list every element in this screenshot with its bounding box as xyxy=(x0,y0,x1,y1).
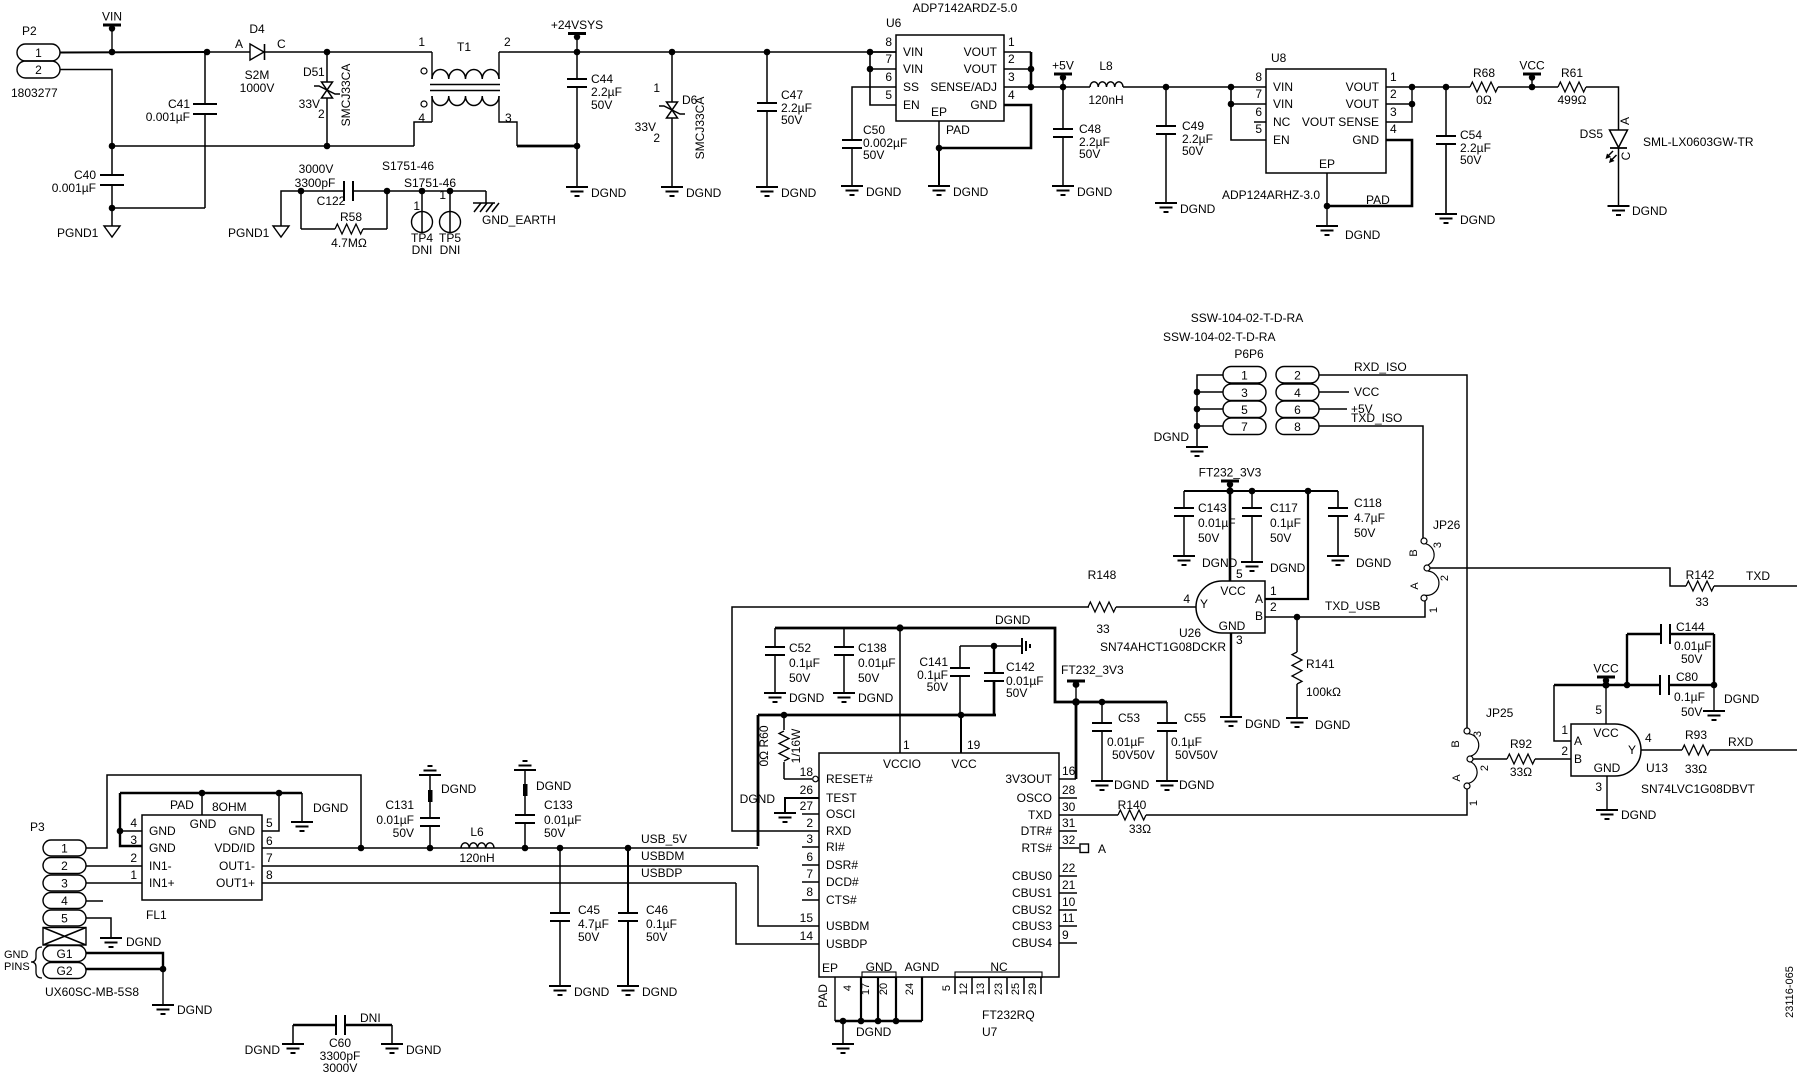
svg-text:G1: G1 xyxy=(56,947,72,961)
svg-text:+24VSYS: +24VSYS xyxy=(551,18,603,32)
svg-text:50V: 50V xyxy=(1681,652,1702,666)
ground DGND xyxy=(1596,808,1657,822)
svg-text:C118: C118 xyxy=(1354,496,1382,510)
svg-text:6: 6 xyxy=(885,70,892,84)
ground DGND xyxy=(617,985,678,999)
junction xyxy=(781,712,788,719)
svg-text:1: 1 xyxy=(1241,368,1248,382)
svg-text:1: 1 xyxy=(1428,607,1440,613)
svg-text:OUT1+: OUT1+ xyxy=(216,876,255,890)
svg-text:28: 28 xyxy=(1062,783,1076,797)
svg-text:DGND: DGND xyxy=(1724,692,1760,706)
wire USBDP to U7 pin14 xyxy=(736,883,819,944)
ground DGND xyxy=(1241,561,1306,575)
resistor R140 xyxy=(1118,798,1152,836)
junction xyxy=(109,49,116,56)
svg-text:U13: U13 xyxy=(1646,761,1668,775)
junction xyxy=(427,845,434,852)
svg-text:R61: R61 xyxy=(1561,66,1583,80)
svg-text:OSCI: OSCI xyxy=(826,807,855,821)
power flag +24VSYS xyxy=(551,18,603,52)
svg-text:8OHM: 8OHM xyxy=(212,800,247,814)
svg-text:DGND: DGND xyxy=(953,185,989,199)
junction xyxy=(1409,84,1416,91)
svg-text:GND: GND xyxy=(1219,619,1246,633)
svg-text:DGND: DGND xyxy=(1356,556,1392,570)
svg-text:VIN: VIN xyxy=(1273,80,1293,94)
svg-text:RXD_ISO: RXD_ISO xyxy=(1354,360,1407,374)
wire R60 to RESET# xyxy=(784,778,812,780)
svg-text:GND_EARTH: GND_EARTH xyxy=(482,213,556,227)
svg-text:JP25: JP25 xyxy=(1486,706,1514,720)
svg-text:27: 27 xyxy=(800,799,814,813)
svg-text:PAD: PAD xyxy=(946,123,970,137)
junction xyxy=(1194,423,1201,430)
wire DS5 cathode to DGND xyxy=(1618,148,1620,206)
wire P3 pin3 to IN1+ xyxy=(86,882,142,884)
wire JP25 pin1 to R140 xyxy=(1146,789,1467,815)
wire VCC rail at U13 xyxy=(1554,684,1660,686)
svg-text:0.1µF: 0.1µF xyxy=(646,917,677,931)
capacitor C141 xyxy=(917,646,970,715)
LED DS5 xyxy=(1580,117,1754,163)
junction xyxy=(358,845,365,852)
wire USB_5V riser xyxy=(757,715,760,846)
svg-text:A: A xyxy=(1409,582,1421,590)
svg-text:33V: 33V xyxy=(299,97,320,111)
svg-text:C117: C117 xyxy=(1270,501,1298,515)
svg-text:R142: R142 xyxy=(1686,568,1715,582)
svg-text:1: 1 xyxy=(903,738,910,752)
svg-text:T1: T1 xyxy=(457,40,471,54)
svg-text:S2M: S2M xyxy=(245,68,270,82)
wire FL1 rail to DGND xyxy=(301,793,303,822)
svg-text:4: 4 xyxy=(1645,731,1652,745)
junction xyxy=(625,845,632,852)
svg-text:3: 3 xyxy=(61,877,68,891)
ground DGND xyxy=(1156,778,1215,792)
svg-text:DGND: DGND xyxy=(313,801,349,815)
svg-text:DS5: DS5 xyxy=(1580,127,1604,141)
ground DGND xyxy=(1327,556,1392,570)
junction xyxy=(109,143,116,150)
svg-text:U26: U26 xyxy=(1179,626,1201,640)
capacitor C122 xyxy=(295,162,387,208)
wire CBUS4 stub xyxy=(1059,942,1077,944)
svg-text:1: 1 xyxy=(1008,35,1015,49)
svg-text:2: 2 xyxy=(1561,744,1568,758)
svg-text:24: 24 xyxy=(904,983,916,995)
svg-text:8: 8 xyxy=(266,868,273,882)
svg-text:50V: 50V xyxy=(544,826,565,840)
svg-text:1: 1 xyxy=(1468,800,1480,806)
svg-text:0.01µF: 0.01µF xyxy=(544,813,582,827)
svg-text:50V: 50V xyxy=(1182,144,1203,158)
svg-text:3: 3 xyxy=(1008,70,1015,84)
junction xyxy=(867,49,874,56)
wire JP26 common to R142 xyxy=(1430,568,1686,586)
svg-text:G2: G2 xyxy=(56,964,72,978)
svg-text:DGND: DGND xyxy=(1345,228,1381,242)
wire USBDP from FL1 OUT1+ xyxy=(262,882,736,884)
svg-text:GND: GND xyxy=(1352,133,1379,147)
svg-text:IN1-: IN1- xyxy=(149,859,172,873)
junction xyxy=(160,966,167,973)
svg-text:50V: 50V xyxy=(393,826,414,840)
svg-text:23: 23 xyxy=(993,983,1005,995)
wire VCCIO pin1 riser xyxy=(899,628,901,753)
svg-text:50V: 50V xyxy=(646,930,667,944)
svg-text:1: 1 xyxy=(318,65,325,79)
resistor R93 xyxy=(1682,728,1710,776)
net TXD xyxy=(1746,569,1770,583)
svg-text:VCCIO: VCCIO xyxy=(883,757,921,771)
wire TEST to DGND xyxy=(785,798,819,813)
wire U13 Y to R93 xyxy=(1641,749,1682,751)
svg-text:DGND: DGND xyxy=(1621,808,1657,822)
svg-text:IN1+: IN1+ xyxy=(149,876,175,890)
svg-text:SMCJ33CA: SMCJ33CA xyxy=(693,97,707,160)
wire U7 GND pin20 stub xyxy=(895,977,897,1021)
svg-text:1: 1 xyxy=(1270,584,1277,598)
svg-text:50V: 50V xyxy=(1354,526,1375,540)
svg-text:2: 2 xyxy=(35,63,42,77)
svg-text:1: 1 xyxy=(413,199,420,213)
svg-text:RXD: RXD xyxy=(1728,735,1754,749)
resistor R61 xyxy=(1558,66,1587,107)
svg-text:C80: C80 xyxy=(1676,670,1698,684)
svg-text:12: 12 xyxy=(958,983,970,995)
svg-text:VOUT SENSE: VOUT SENSE xyxy=(1302,115,1379,129)
svg-text:50V: 50V xyxy=(863,148,884,162)
svg-text:C60: C60 xyxy=(329,1036,351,1050)
wire U7 GND pin17 stub xyxy=(877,977,879,1021)
svg-text:DGND: DGND xyxy=(858,691,894,705)
svg-text:SN74LVC1G08DBVT: SN74LVC1G08DBVT xyxy=(1641,782,1756,796)
svg-text:16: 16 xyxy=(1062,764,1076,778)
svg-text:C142: C142 xyxy=(1006,660,1035,674)
wire R92 to U13 B xyxy=(1535,758,1571,760)
svg-text:14: 14 xyxy=(800,929,814,943)
wire T1 pin3 down xyxy=(499,96,517,146)
junction xyxy=(1072,698,1080,706)
svg-text:0.001µF: 0.001µF xyxy=(146,110,190,124)
svg-text:USB_5V: USB_5V xyxy=(641,832,687,846)
svg-text:R141: R141 xyxy=(1306,657,1335,671)
wire FL1 pin4 xyxy=(120,830,142,832)
junction xyxy=(522,845,529,852)
wire R148 to U26 Y xyxy=(1116,606,1196,608)
svg-text:FL1: FL1 xyxy=(146,908,167,922)
svg-text:PAD: PAD xyxy=(816,984,830,1008)
svg-text:19: 19 xyxy=(967,738,981,752)
svg-text:8: 8 xyxy=(885,35,892,49)
svg-text:4: 4 xyxy=(61,894,68,908)
svg-text:USBDM: USBDM xyxy=(641,849,684,863)
svg-text:VCC: VCC xyxy=(1593,662,1619,676)
svg-text:B: B xyxy=(1450,740,1462,747)
ground DGND xyxy=(1286,718,1351,732)
svg-text:C46: C46 xyxy=(646,903,668,917)
junction xyxy=(324,49,331,56)
svg-text:2: 2 xyxy=(1270,600,1277,614)
junction xyxy=(1294,614,1301,621)
svg-text:CTS#: CTS# xyxy=(826,893,857,907)
svg-text:1: 1 xyxy=(1390,70,1397,84)
svg-text:D4: D4 xyxy=(249,22,265,36)
svg-text:DNI: DNI xyxy=(440,243,461,257)
svg-text:2: 2 xyxy=(1008,52,1015,66)
svg-text:33: 33 xyxy=(1096,622,1110,636)
svg-text:P6P6: P6P6 xyxy=(1234,347,1264,361)
svg-text:DTR#: DTR# xyxy=(1021,824,1053,838)
svg-text:4.7MΩ: 4.7MΩ xyxy=(331,236,367,250)
ground DGND xyxy=(1220,717,1281,731)
svg-text:C144: C144 xyxy=(1676,620,1705,634)
junction xyxy=(109,205,116,212)
svg-text:C131: C131 xyxy=(385,798,414,812)
junction xyxy=(1602,681,1609,688)
offpage connector A (RTS#) xyxy=(1080,842,1106,856)
svg-text:0.1µF: 0.1µF xyxy=(1171,735,1202,749)
svg-text:RESET#: RESET# xyxy=(826,772,873,786)
TVS diode D5 xyxy=(299,52,353,146)
svg-text:A: A xyxy=(1618,117,1632,125)
svg-text:DGND: DGND xyxy=(245,1043,281,1057)
svg-text:A: A xyxy=(1574,734,1582,748)
wire P3 pin5 to DGND xyxy=(86,918,111,938)
wire C60 left to DGND xyxy=(292,1025,294,1044)
svg-text:SN74AHCT1G08DCKR: SN74AHCT1G08DCKR xyxy=(1100,640,1226,654)
svg-text:VCC: VCC xyxy=(1354,385,1380,399)
svg-text:C54: C54 xyxy=(1460,128,1482,142)
ground DGND (U7) xyxy=(832,1025,892,1053)
wire T1 pin3 to DGND node (thick) xyxy=(517,145,577,148)
svg-text:23116-065: 23116-065 xyxy=(1784,966,1796,1018)
wire U6 EP to DGND xyxy=(938,148,940,186)
svg-text:5: 5 xyxy=(61,912,68,926)
svg-text:GND: GND xyxy=(149,824,176,838)
svg-text:2: 2 xyxy=(653,131,660,145)
svg-text:DGND: DGND xyxy=(1245,717,1281,731)
svg-text:DNI: DNI xyxy=(360,1011,381,1025)
svg-text:NC: NC xyxy=(1273,115,1291,129)
svg-text:S1751-46: S1751-46 xyxy=(404,176,456,190)
junction xyxy=(896,624,903,631)
svg-text:DGND: DGND xyxy=(781,186,817,200)
svg-text:U6: U6 xyxy=(886,16,902,30)
svg-text:DGND: DGND xyxy=(536,779,572,793)
svg-text:DGND: DGND xyxy=(1154,430,1190,444)
svg-text:TXD: TXD xyxy=(1746,569,1770,583)
wire P6P6 pin5 xyxy=(1197,408,1223,410)
svg-text:50V50V: 50V50V xyxy=(1112,748,1155,762)
svg-text:25: 25 xyxy=(1010,983,1022,995)
capacitor C80 xyxy=(1660,670,1714,719)
junction xyxy=(574,143,581,150)
svg-text:0.01µF: 0.01µF xyxy=(858,656,896,670)
wire P2.2 down xyxy=(60,70,112,147)
capacitor C54 xyxy=(1436,87,1491,214)
svg-text:1000V: 1000V xyxy=(240,81,275,95)
svg-text:0.01µF: 0.01µF xyxy=(1674,639,1712,653)
svg-text:DGND: DGND xyxy=(1114,778,1150,792)
wire U7 AGND pin24 stub xyxy=(921,977,923,1021)
svg-text:4: 4 xyxy=(418,111,425,125)
ground DGND xyxy=(1091,778,1150,792)
junction xyxy=(1194,406,1201,413)
junction xyxy=(276,790,283,797)
wire P6P6 pin3 xyxy=(1197,391,1223,393)
power flag VCC (U13) xyxy=(1593,662,1619,686)
svg-text:TXD: TXD xyxy=(1028,808,1052,822)
capacitor C138 xyxy=(834,628,896,693)
svg-text:DGND: DGND xyxy=(591,186,627,200)
svg-text:C41: C41 xyxy=(168,97,190,111)
wire TXD_ISO to JP26 pin3 xyxy=(1319,426,1423,538)
wire U6 SS to C50 xyxy=(852,87,896,140)
svg-text:50V: 50V xyxy=(1198,531,1219,545)
ground DGND (P3 pin5) xyxy=(100,935,162,949)
capacitor C143 xyxy=(1174,491,1236,556)
svg-text:A: A xyxy=(1098,842,1106,856)
svg-text:50V: 50V xyxy=(1681,705,1702,719)
svg-text:C47: C47 xyxy=(781,88,803,102)
ground DGND xyxy=(1052,185,1113,199)
svg-text:1: 1 xyxy=(61,842,68,856)
svg-text:15: 15 xyxy=(800,911,814,925)
svg-text:B: B xyxy=(1408,549,1420,556)
net USB_5V xyxy=(641,832,687,846)
svg-text:C133: C133 xyxy=(544,798,573,812)
junction xyxy=(875,1018,882,1025)
capacitor C40 xyxy=(52,146,124,226)
svg-text:EP: EP xyxy=(931,105,947,119)
ground DGND (C131, flipped) xyxy=(419,766,477,796)
wire U6 VOUT pin2 xyxy=(1004,68,1031,70)
ground DGND xyxy=(1316,226,1381,242)
svg-text:50V: 50V xyxy=(789,671,810,685)
svg-text:R93: R93 xyxy=(1685,728,1707,742)
ground DGND (sideways) xyxy=(1022,638,1030,654)
wire U13 GND pin3 xyxy=(1606,776,1608,810)
svg-text:50V: 50V xyxy=(591,98,612,112)
svg-text:EP: EP xyxy=(1319,157,1335,171)
wire DCD# stub xyxy=(802,881,819,883)
svg-text:EP: EP xyxy=(822,961,838,975)
svg-text:2: 2 xyxy=(61,859,68,873)
wire U8 pin7 xyxy=(1231,103,1266,105)
junction xyxy=(1228,84,1235,91)
svg-text:GND: GND xyxy=(190,817,217,831)
wire U26 input B TXD_USB to JP26 pin1 xyxy=(1265,601,1425,617)
svg-text:VOUT: VOUT xyxy=(1346,80,1380,94)
wire +24VSYS rail to U6 VIN xyxy=(577,51,896,53)
wire CBUS2 stub xyxy=(1059,909,1077,911)
svg-text:UX60SC-MB-5S8: UX60SC-MB-5S8 xyxy=(45,985,139,999)
wire VIN to D4 anode xyxy=(207,51,250,53)
svg-text:VOUT: VOUT xyxy=(964,45,998,59)
capacitor C52 xyxy=(765,628,820,693)
ground DGND (P6P6) xyxy=(1154,430,1208,456)
wire RTS# stub xyxy=(1059,847,1079,849)
capacitor C144 xyxy=(1627,620,1714,685)
svg-text:120nH: 120nH xyxy=(1088,93,1123,107)
svg-text:DSR#: DSR# xyxy=(826,858,858,872)
svg-text:Y: Y xyxy=(1200,597,1208,611)
svg-text:7: 7 xyxy=(885,52,892,66)
svg-text:DGND: DGND xyxy=(441,782,477,796)
svg-text:DGND: DGND xyxy=(995,613,1031,627)
svg-text:C55: C55 xyxy=(1184,711,1206,725)
svg-text:5: 5 xyxy=(266,816,273,830)
ground DGND xyxy=(928,185,989,199)
svg-text:0Ω: 0Ω xyxy=(1476,93,1492,107)
svg-text:50V: 50V xyxy=(1460,153,1481,167)
ground DGND xyxy=(1173,556,1238,570)
svg-text:4: 4 xyxy=(1294,386,1301,400)
net USBDM xyxy=(641,849,684,863)
net label DGND (C141/C142) xyxy=(995,613,1031,627)
svg-text:21: 21 xyxy=(1062,878,1076,892)
ground DGND xyxy=(841,185,902,199)
svg-text:6: 6 xyxy=(1294,403,1301,417)
connector P3 UX60SC-MB-5S8 xyxy=(4,820,139,999)
test point TP5 xyxy=(404,176,461,257)
svg-text:RI#: RI# xyxy=(826,840,845,854)
wire U26 VCC pin5 riser xyxy=(1229,491,1232,581)
svg-text:PAD: PAD xyxy=(170,798,194,812)
ground PGND1 (C122) xyxy=(228,226,289,240)
svg-text:EN: EN xyxy=(903,98,920,112)
wire OSCO stub xyxy=(1059,797,1077,799)
svg-text:10: 10 xyxy=(1062,895,1076,909)
capacitor C46 xyxy=(618,848,677,986)
svg-text:DGND: DGND xyxy=(177,1003,213,1017)
svg-text:0.1µF: 0.1µF xyxy=(1674,690,1705,704)
junction xyxy=(1305,488,1312,495)
svg-text:VDD/ID: VDD/ID xyxy=(214,841,255,855)
net USBDP xyxy=(641,866,682,880)
svg-text:4: 4 xyxy=(1183,592,1190,606)
wire FT232_3V3 3V3OUT rail xyxy=(775,628,1167,702)
power flag FT232_3V3 (3V3OUT) xyxy=(1061,663,1124,702)
wire U8 VOUT pin1 xyxy=(1386,86,1412,88)
wire U7 NC pin25 stub xyxy=(1023,977,1025,994)
junction xyxy=(1060,84,1067,91)
junction xyxy=(893,1018,900,1025)
svg-text:DGND: DGND xyxy=(406,1043,442,1057)
svg-text:GND: GND xyxy=(4,949,29,961)
svg-text:499Ω: 499Ω xyxy=(1558,93,1587,107)
svg-text:DGND: DGND xyxy=(1180,202,1216,216)
wire FT232_3V3 decoupling rail xyxy=(1184,490,1338,492)
junction xyxy=(867,66,874,73)
svg-text:C138: C138 xyxy=(858,641,887,655)
regulator U6 ADP7142ARDZ-5.0 xyxy=(885,1,1017,137)
inductor L6 xyxy=(459,825,494,865)
wire U7 NC pin5 stub xyxy=(954,977,956,994)
jumper JP26 xyxy=(1408,518,1461,613)
svg-text:50V: 50V xyxy=(1006,686,1027,700)
net +5V stub (P6P6 pin6) xyxy=(1351,402,1373,416)
connector P2 xyxy=(11,24,60,100)
junction xyxy=(1228,101,1235,108)
pin circle RESET# xyxy=(813,776,819,782)
svg-text:CBUS4: CBUS4 xyxy=(1012,936,1052,950)
svg-text:PGND1: PGND1 xyxy=(228,226,270,240)
connector P6P6 SSW-104-02-T-D-RA xyxy=(1163,311,1319,435)
